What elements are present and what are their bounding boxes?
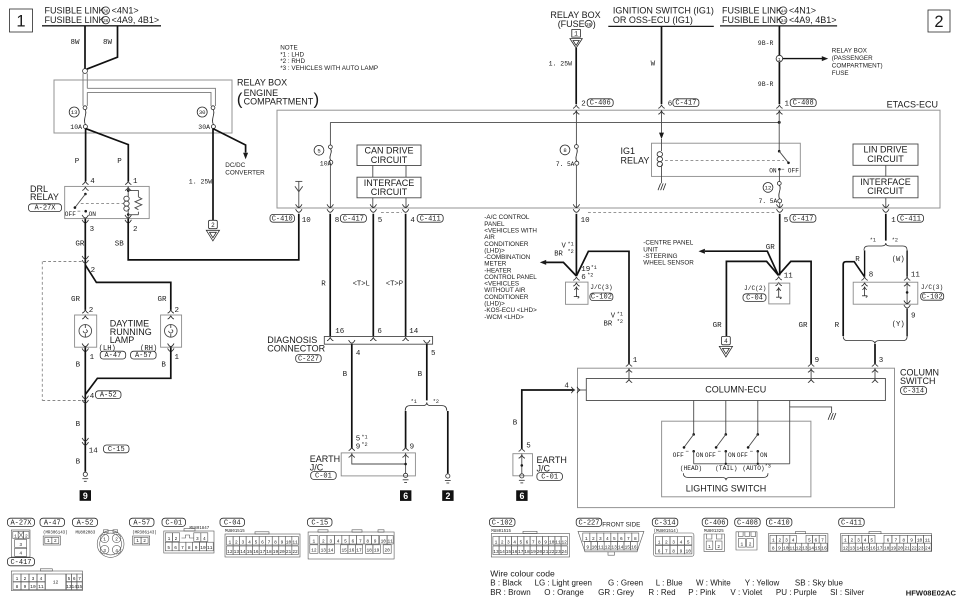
fusible link 34 label xyxy=(722,15,837,25)
svg-text:C-406: C-406 xyxy=(590,100,611,108)
variant brace C-411 xyxy=(864,238,907,251)
GR labels at lamps xyxy=(71,296,167,304)
wire B from RH lamp xyxy=(86,347,171,394)
wire GR to off-page 4 xyxy=(713,261,779,336)
svg-text:1: 1 xyxy=(90,354,95,362)
page reference box 2 xyxy=(928,10,950,32)
svg-text:A-27X: A-27X xyxy=(34,205,56,213)
svg-text:4: 4 xyxy=(203,536,206,542)
ETACS internal supply bus xyxy=(330,121,780,124)
svg-text:1: 1 xyxy=(785,101,790,109)
svg-text:1: 1 xyxy=(741,542,744,548)
arrow to passenger relay box xyxy=(783,47,883,77)
bracket C-408 pin 1 xyxy=(776,99,816,114)
svg-text:A-52: A-52 xyxy=(100,392,117,400)
lighting switch AUTO xyxy=(737,433,768,464)
LIN drive circuit U xyxy=(853,144,918,165)
svg-text:5: 5 xyxy=(378,217,383,225)
svg-text:IGNITION SWITCH (IG1): IGNITION SWITCH (IG1) xyxy=(613,6,714,16)
link LIN-interface xyxy=(885,165,887,208)
svg-text:11: 11 xyxy=(38,584,44,590)
svg-text:36: 36 xyxy=(103,18,109,24)
svg-text:13: 13 xyxy=(234,549,240,555)
arrow to device list xyxy=(540,260,577,276)
svg-text:OFF: OFF xyxy=(788,168,799,175)
svg-text:23: 23 xyxy=(918,546,924,552)
svg-text:14: 14 xyxy=(240,549,246,555)
svg-text:3: 3 xyxy=(242,539,245,545)
svg-text:38: 38 xyxy=(103,9,109,15)
C-411 pin 1 exit right xyxy=(883,204,924,225)
svg-text:4: 4 xyxy=(792,538,795,544)
connector A-57 pinout xyxy=(130,518,157,545)
svg-text:R : Red: R : Red xyxy=(648,588,675,597)
svg-text:10A: 10A xyxy=(70,124,82,131)
svg-text:J/C: J/C xyxy=(310,462,324,472)
connector C-04 pinout xyxy=(220,518,300,557)
lighting switch box xyxy=(662,421,811,497)
svg-text:C-408: C-408 xyxy=(737,520,758,528)
svg-text:1: 1 xyxy=(658,539,661,545)
svg-text:7: 7 xyxy=(268,539,271,545)
svg-text:R: R xyxy=(321,281,326,289)
svg-text:11: 11 xyxy=(387,538,393,544)
svg-text:*1: *1 xyxy=(361,434,367,440)
svg-text:*1: *1 xyxy=(568,241,574,247)
svg-text:2: 2 xyxy=(133,226,138,234)
bracket C-417 pin 6 xyxy=(658,99,699,114)
svg-text:C-408: C-408 xyxy=(793,100,814,108)
svg-text:2: 2 xyxy=(54,538,57,544)
wire variant 2 to ground 2 xyxy=(447,411,449,473)
wire colour code line 2 xyxy=(490,588,864,597)
svg-text:6: 6 xyxy=(174,545,177,551)
svg-text:3: 3 xyxy=(599,536,602,542)
svg-text:2: 2 xyxy=(89,307,94,315)
CAN drive circuit U xyxy=(357,145,421,166)
svg-text:11: 11 xyxy=(790,546,796,552)
svg-text:12: 12 xyxy=(227,549,233,555)
svg-text:9: 9 xyxy=(778,546,781,552)
svg-text:8: 8 xyxy=(335,217,340,225)
column pin 3 entry xyxy=(872,363,878,382)
fusible link 44 label xyxy=(722,6,816,16)
svg-text:WHEEL SENSOR: WHEEL SENSOR xyxy=(643,260,694,267)
svg-text:15: 15 xyxy=(625,544,631,550)
svg-text:10: 10 xyxy=(592,544,598,550)
svg-text:20: 20 xyxy=(384,548,390,554)
wire variant 1 to earth JC pin 9 xyxy=(406,411,415,451)
svg-text:3: 3 xyxy=(196,536,199,542)
svg-text:8W: 8W xyxy=(103,39,113,47)
wire P to DRL relay pin 4 xyxy=(75,129,96,187)
svg-text:SB: SB xyxy=(115,240,125,248)
svg-text:6: 6 xyxy=(403,491,408,501)
interface circuit U left xyxy=(357,177,421,198)
DRL relay pin 1 entry xyxy=(125,181,131,190)
svg-text:FUSE: FUSE xyxy=(832,70,849,77)
svg-text:14: 14 xyxy=(809,546,815,552)
svg-text:1: 1 xyxy=(778,57,781,63)
svg-text:11: 11 xyxy=(292,539,298,545)
svg-text:A-27X: A-27X xyxy=(10,520,32,528)
svg-text:9: 9 xyxy=(195,545,198,551)
svg-text:4: 4 xyxy=(90,393,95,401)
earth JC2 ground xyxy=(519,474,525,483)
svg-text:CIRCUIT: CIRCUIT xyxy=(867,154,904,164)
svg-text:5: 5 xyxy=(870,538,873,544)
wire B from diagnosis pin 5 xyxy=(418,344,427,400)
junction A-52 pin 4 xyxy=(82,393,95,403)
drawing number xyxy=(906,588,957,597)
svg-text:22: 22 xyxy=(549,549,555,555)
column pin 4 chevrons xyxy=(572,387,587,393)
svg-text:1: 1 xyxy=(313,538,316,544)
dashed connector grouping line xyxy=(381,212,776,214)
svg-text:9: 9 xyxy=(911,312,916,320)
svg-text:1: 1 xyxy=(574,31,578,38)
svg-text:MU801515: MU801515 xyxy=(225,530,245,534)
svg-text:OFF: OFF xyxy=(673,452,684,459)
ground 2 symbol xyxy=(445,474,451,483)
column switch C-314 box xyxy=(578,367,940,507)
svg-text:13: 13 xyxy=(71,109,78,116)
svg-text:17: 17 xyxy=(518,549,524,555)
svg-text:ON: ON xyxy=(728,452,736,459)
svg-text:6: 6 xyxy=(377,328,382,336)
svg-text:G : Green: G : Green xyxy=(608,579,643,588)
svg-text:7: 7 xyxy=(359,538,362,544)
svg-text:4: 4 xyxy=(724,338,728,345)
svg-text:8: 8 xyxy=(366,538,369,544)
svg-text:19: 19 xyxy=(374,548,380,554)
svg-text:16: 16 xyxy=(631,544,637,550)
page ref black box 6 second xyxy=(516,490,527,501)
svg-text:7: 7 xyxy=(532,539,535,545)
svg-text:1: 1 xyxy=(133,178,138,186)
wire to DC/DC converter xyxy=(213,129,265,177)
svg-text:<T>L: <T>L xyxy=(353,281,370,289)
svg-text:9: 9 xyxy=(374,538,377,544)
svg-text:23: 23 xyxy=(555,549,561,555)
svg-text:4: 4 xyxy=(606,536,609,542)
svg-text:C-410: C-410 xyxy=(272,215,293,223)
arrow to centre panel xyxy=(699,249,779,276)
wire R variant 1 xyxy=(855,250,864,276)
svg-text:2: 2 xyxy=(717,544,720,550)
ETACS-ECU box xyxy=(277,100,940,208)
svg-text:(MR306143): (MR306143) xyxy=(132,530,157,535)
centre panel device list xyxy=(643,240,694,267)
svg-text:17: 17 xyxy=(356,548,362,554)
svg-text:4: 4 xyxy=(680,539,683,545)
svg-text:MU801847: MU801847 xyxy=(190,527,210,531)
svg-text:2: 2 xyxy=(934,13,943,31)
svg-text:16: 16 xyxy=(335,328,345,336)
svg-text:C-01: C-01 xyxy=(165,520,182,528)
svg-text:*2: *2 xyxy=(587,273,593,279)
svg-text:<4N1>: <4N1> xyxy=(789,6,816,16)
svg-text:BR : Brown: BR : Brown xyxy=(490,588,530,597)
svg-text:21: 21 xyxy=(904,546,910,552)
svg-text:OFF: OFF xyxy=(705,452,716,459)
svg-text:8: 8 xyxy=(274,539,277,545)
svg-text:3: 3 xyxy=(879,357,884,365)
svg-text:6: 6 xyxy=(519,491,524,501)
svg-text:4: 4 xyxy=(513,539,516,545)
svg-text:A-47: A-47 xyxy=(105,352,122,360)
svg-text:17: 17 xyxy=(260,549,266,555)
svg-text:1: 1 xyxy=(495,539,498,545)
interface circuit U right xyxy=(853,176,918,198)
daytime running lamp labels xyxy=(99,319,158,354)
svg-text:16: 16 xyxy=(870,546,876,552)
svg-text:16: 16 xyxy=(512,549,518,555)
svg-text:34: 34 xyxy=(780,18,786,24)
wire colour code title xyxy=(490,568,555,578)
wire R thick to brace xyxy=(835,262,865,336)
svg-text:11: 11 xyxy=(207,545,213,551)
svg-text:C-410: C-410 xyxy=(769,520,790,528)
svg-text:9: 9 xyxy=(586,544,589,550)
bracket C-04 xyxy=(743,294,766,303)
svg-text:5: 5 xyxy=(519,539,522,545)
svg-text:21: 21 xyxy=(543,549,549,555)
svg-text:C-417: C-417 xyxy=(343,215,364,223)
svg-text:R: R xyxy=(855,256,860,264)
svg-text:5: 5 xyxy=(344,538,347,544)
fuse 8 7.5A in ETACS xyxy=(556,110,579,208)
earth JC internal xyxy=(352,453,407,473)
svg-text:5: 5 xyxy=(167,545,170,551)
page ref black box 9 xyxy=(80,490,91,501)
daytime running lamp RH A-57 xyxy=(161,307,182,362)
fuse 12 7.5A in ETACS xyxy=(759,169,782,208)
svg-text:12: 12 xyxy=(311,548,317,554)
svg-text:A-47: A-47 xyxy=(44,520,61,528)
svg-text:12: 12 xyxy=(605,544,611,550)
svg-text:CONVERTER: CONVERTER xyxy=(225,169,265,176)
svg-text:2: 2 xyxy=(779,538,782,544)
svg-text:8: 8 xyxy=(672,548,675,554)
svg-text:C-314: C-314 xyxy=(655,520,676,528)
J/C(3) C-102 left entry xyxy=(573,265,597,286)
svg-text:1: 1 xyxy=(891,217,896,225)
earth JC entries xyxy=(349,447,409,457)
svg-text:C-411: C-411 xyxy=(841,520,862,528)
svg-text:P : Pink: P : Pink xyxy=(688,588,716,597)
svg-text:14: 14 xyxy=(856,546,862,552)
svg-text:11: 11 xyxy=(555,539,561,545)
svg-text:MU801325: MU801325 xyxy=(704,530,724,534)
svg-text:2: 2 xyxy=(592,536,595,542)
svg-text:3: 3 xyxy=(103,548,106,554)
svg-text:ETACS-ECU: ETACS-ECU xyxy=(887,100,938,110)
svg-text:1: 1 xyxy=(772,538,775,544)
svg-text:6: 6 xyxy=(526,539,529,545)
bracket C-15 at wire xyxy=(104,445,130,454)
svg-text:C-227: C-227 xyxy=(578,520,599,528)
svg-text:C-417: C-417 xyxy=(10,559,31,567)
svg-text:22: 22 xyxy=(292,549,298,555)
svg-text:7: 7 xyxy=(78,576,81,582)
svg-text:22: 22 xyxy=(911,546,917,552)
relay box (engine compartment) xyxy=(54,78,319,133)
diagnosis connector C-227 strip xyxy=(267,335,432,353)
svg-text:CIRCUIT: CIRCUIT xyxy=(867,186,904,196)
svg-text:5: 5 xyxy=(808,538,811,544)
links CAN-interface xyxy=(373,166,406,209)
wire to column pin 3 xyxy=(875,344,884,365)
J/C(3) C-102 right box xyxy=(853,282,943,304)
under brace to column pin 3 xyxy=(843,336,907,344)
svg-text:P: P xyxy=(117,158,122,166)
J/C(3) C-102 right entries xyxy=(861,272,920,287)
svg-text:5: 5 xyxy=(784,217,789,225)
column internal ground xyxy=(790,401,836,420)
bracket C-102 left xyxy=(590,293,613,302)
svg-text:20: 20 xyxy=(898,546,904,552)
dashed variant wire bypass xyxy=(42,262,84,401)
svg-text:3: 3 xyxy=(90,226,95,234)
svg-text:12: 12 xyxy=(561,539,567,545)
C-411 pin 4 exit xyxy=(402,204,443,225)
svg-text:OFF: OFF xyxy=(737,452,748,459)
svg-text:B: B xyxy=(76,421,81,429)
svg-text:RELAY: RELAY xyxy=(621,155,650,165)
svg-text:Y : Yellow: Y : Yellow xyxy=(745,579,780,588)
svg-text:5: 5 xyxy=(317,147,320,154)
svg-text:16: 16 xyxy=(253,549,259,555)
svg-text:8: 8 xyxy=(902,538,905,544)
DRL relay coil link dashed xyxy=(81,203,124,205)
svg-text:FUSIBLE LINK: FUSIBLE LINK xyxy=(45,6,105,16)
svg-text:24: 24 xyxy=(925,546,931,552)
svg-text:14: 14 xyxy=(499,549,505,555)
svg-text:GR: GR xyxy=(75,240,85,248)
svg-text:W: W xyxy=(651,60,656,68)
svg-text:B: B xyxy=(418,371,423,379)
svg-text:3: 3 xyxy=(857,538,860,544)
svg-text:6: 6 xyxy=(658,548,661,554)
earth J/C C-01 box xyxy=(310,453,416,476)
fuse 30 30A xyxy=(197,106,215,131)
svg-text:(PASSENGER: (PASSENGER xyxy=(832,55,873,62)
svg-text:*2: *2 xyxy=(361,442,367,448)
svg-text:(AUTO): (AUTO) xyxy=(742,465,764,472)
svg-text:10: 10 xyxy=(30,584,36,590)
svg-text:2: 2 xyxy=(235,539,238,545)
svg-text:10: 10 xyxy=(286,539,292,545)
svg-text:19: 19 xyxy=(891,546,897,552)
svg-text:15: 15 xyxy=(863,546,869,552)
connector A-52 pinout xyxy=(73,518,125,557)
svg-text:(HEAD): (HEAD) xyxy=(680,465,702,472)
svg-text:*3: *3 xyxy=(765,464,771,470)
svg-text:2: 2 xyxy=(501,539,504,545)
svg-text:COMPARTMENT: COMPARTMENT xyxy=(244,97,314,107)
svg-text:GR: GR xyxy=(799,322,809,330)
svg-text:9: 9 xyxy=(83,491,88,501)
svg-text:4: 4 xyxy=(115,548,118,554)
svg-text:C-04: C-04 xyxy=(746,295,763,303)
svg-text:13: 13 xyxy=(802,546,808,552)
svg-text:(Y): (Y) xyxy=(892,321,905,329)
svg-text:30: 30 xyxy=(586,22,592,28)
svg-text:20: 20 xyxy=(537,549,543,555)
svg-text:11: 11 xyxy=(925,538,931,544)
svg-text:W : White: W : White xyxy=(696,579,731,588)
svg-text:R: R xyxy=(835,322,840,330)
svg-text:J/C: J/C xyxy=(537,463,551,473)
svg-text:14: 14 xyxy=(89,447,99,455)
svg-text:9: 9 xyxy=(544,539,547,545)
svg-text:*2: *2 xyxy=(892,238,898,244)
svg-text:2: 2 xyxy=(115,537,118,543)
svg-text:17: 17 xyxy=(877,546,883,552)
node splice to relay box xyxy=(83,69,88,74)
svg-text:6: 6 xyxy=(815,538,818,544)
svg-text:15: 15 xyxy=(247,549,253,555)
svg-text:DC/DC: DC/DC xyxy=(225,162,245,169)
bracket C-406 pin 2 xyxy=(573,99,613,114)
svg-text:<4A9, 4B1>: <4A9, 4B1> xyxy=(112,15,160,25)
daytime running lamp LH A-47 xyxy=(75,307,97,362)
svg-text:CIRCUIT: CIRCUIT xyxy=(371,155,408,165)
svg-text:PU : Purple: PU : Purple xyxy=(776,588,817,597)
svg-text:13: 13 xyxy=(321,548,327,554)
svg-text:GR : Grey: GR : Grey xyxy=(598,588,634,597)
svg-text:2: 2 xyxy=(143,538,146,544)
wire V-BR to column pin 1 xyxy=(576,251,637,364)
svg-text:C-417: C-417 xyxy=(675,100,696,108)
svg-text:7: 7 xyxy=(894,538,897,544)
svg-text:RELAY BOX: RELAY BOX xyxy=(237,78,287,88)
svg-text:10: 10 xyxy=(302,217,312,225)
IG1 relay box xyxy=(621,143,801,176)
DRL relay switch xyxy=(65,193,97,218)
svg-text:HFW08E02AC: HFW08E02AC xyxy=(906,588,957,597)
svg-text:10: 10 xyxy=(917,538,923,544)
svg-text:18: 18 xyxy=(524,549,530,555)
svg-text:7. 5A: 7. 5A xyxy=(759,198,778,205)
svg-text:1. 25W: 1. 25W xyxy=(549,60,573,67)
svg-text:44: 44 xyxy=(780,9,786,15)
in-line connector A-52 pin 2 xyxy=(82,256,95,275)
svg-text:2: 2 xyxy=(581,101,586,109)
svg-text:5: 5 xyxy=(68,576,71,582)
svg-text:9: 9 xyxy=(815,357,820,365)
svg-text:<T>P: <T>P xyxy=(386,281,403,289)
svg-text:GR: GR xyxy=(158,296,168,304)
svg-text:11: 11 xyxy=(911,272,921,280)
wire 9B-R lower to C-408 xyxy=(758,62,790,109)
svg-text:12: 12 xyxy=(843,546,849,552)
IG1 relay coil feed xyxy=(659,110,664,151)
lighting switch output bus xyxy=(694,407,832,465)
fusible link right feed bar xyxy=(720,25,837,27)
connector A-27X pinout xyxy=(8,518,35,557)
svg-text:J/C(3): J/C(3) xyxy=(921,284,943,291)
svg-text:C-04: C-04 xyxy=(224,520,241,528)
IG1 relay coil ground xyxy=(658,183,666,190)
svg-text:C-102: C-102 xyxy=(922,293,943,301)
svg-text:2: 2 xyxy=(211,222,215,229)
device list for CAN bus xyxy=(484,214,537,321)
svg-text:FRONT SIDE: FRONT SIDE xyxy=(602,521,640,528)
note block xyxy=(280,44,378,72)
wire SB from DRL pin 2 to C-410 pin 10 xyxy=(115,214,299,260)
